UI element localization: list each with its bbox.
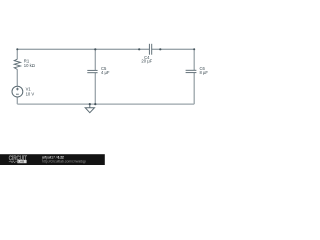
voltage source V1 (12, 86, 23, 97)
CircuitLab logo (9, 155, 27, 164)
watermark bar (0, 154, 105, 165)
node dot top-right corner (193, 48, 195, 50)
svg-text:LAB: LAB (18, 160, 24, 164)
wire bottom horizontal (17, 103, 194, 105)
wire left branch middle (16, 69, 18, 86)
capacitor C5 (middle, vertical) (87, 70, 97, 72)
wire top horizontal left segment (17, 48, 149, 50)
wire top horizontal right segment (152, 48, 195, 50)
svg-text:http://circuitlab.com/c/rwa6qp: http://circuitlab.com/c/rwa6qp (42, 160, 86, 164)
node dot C4 left terminal (138, 48, 140, 50)
wire right branch lower (193, 73, 195, 104)
svg-text:10 V: 10 V (26, 92, 35, 97)
wire middle branch lower (94, 73, 96, 104)
wire middle branch upper (94, 49, 96, 70)
wire left branch upper (16, 49, 18, 59)
capacitor C4 (top, horizontal) (149, 44, 151, 55)
capacitor C6 (right, vertical) (186, 70, 197, 72)
wire right branch upper (193, 49, 195, 70)
svg-text:10 kΩ: 10 kΩ (24, 63, 35, 68)
svg-text:8 µF: 8 µF (200, 70, 209, 75)
node dot middle branch top junction (94, 48, 96, 50)
svg-text:4 µF: 4 µF (101, 70, 110, 75)
node dot top-left corner (16, 48, 18, 50)
wire left branch lower (16, 97, 18, 104)
resistor R1 (14, 59, 20, 69)
ground (85, 104, 94, 113)
node dot middle branch bottom junction (94, 103, 96, 105)
node dot ground junction (89, 103, 91, 105)
node dot C4 right terminal (159, 48, 161, 50)
svg-text:20 µF: 20 µF (141, 59, 152, 64)
